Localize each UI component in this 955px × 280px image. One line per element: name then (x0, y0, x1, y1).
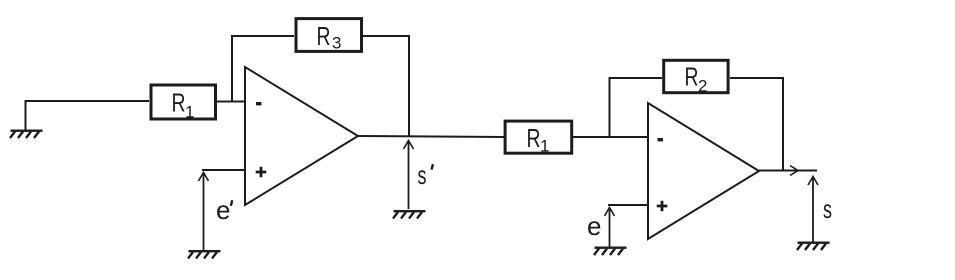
wire (feedback top horizontal into R3) (231, 35, 294, 37)
wire (feedback left vertical to R3) (231, 36, 233, 102)
svg-text:1: 1 (540, 137, 549, 156)
wire (non-inverting input of U1) (202, 169, 245, 171)
resistor R1 (right) (505, 121, 572, 155)
svg-text:3: 3 (332, 34, 341, 53)
svg-text:e: e (216, 195, 230, 225)
svg-text:1: 1 (185, 103, 194, 122)
resistor R2 (664, 60, 728, 95)
op-amp U1 (245, 67, 358, 205)
wire (U2 output with direction arrow) (759, 166, 817, 176)
wire (R3 right to output node, horizontal + vertical) (363, 36, 409, 136)
node e (source arrow) (587, 208, 615, 248)
ground (under s') (393, 210, 426, 219)
resistor R3 (296, 19, 362, 53)
svg-text:2: 2 (698, 77, 707, 96)
svg-text:s: s (418, 160, 427, 190)
ground (under s) (797, 242, 830, 251)
ground (under e) (594, 247, 627, 256)
node s (probe arrow) (808, 177, 832, 243)
wire (R2 right to output node of U2) (730, 78, 783, 170)
wire (left input horizontal to R1) (25, 100, 150, 102)
svg-text:R: R (172, 88, 186, 118)
ground (far left input) (10, 130, 43, 139)
wire (non-inverting input of U2) (608, 204, 648, 206)
wire (R1 right to inverting input of U2) (572, 136, 648, 138)
node e' (source arrow) (199, 173, 233, 251)
wire (feedback 2 left vertical + top horizontal into R2) (610, 78, 663, 137)
wire (U1 output to R1 right) (358, 136, 504, 137)
svg-text:R: R (685, 62, 699, 92)
wire (left input vertical) (25, 101, 27, 130)
op-amp U2 (648, 103, 759, 239)
ground (under e') (188, 250, 221, 259)
resistor R1 (left) (151, 85, 216, 122)
svg-text:R: R (527, 123, 541, 153)
svg-text:e: e (587, 211, 601, 241)
node s' (probe arrow) (404, 141, 434, 210)
wire (R1 to inverting input of U1) (217, 101, 245, 103)
svg-text:s: s (823, 194, 832, 224)
svg-text:R: R (317, 21, 331, 51)
